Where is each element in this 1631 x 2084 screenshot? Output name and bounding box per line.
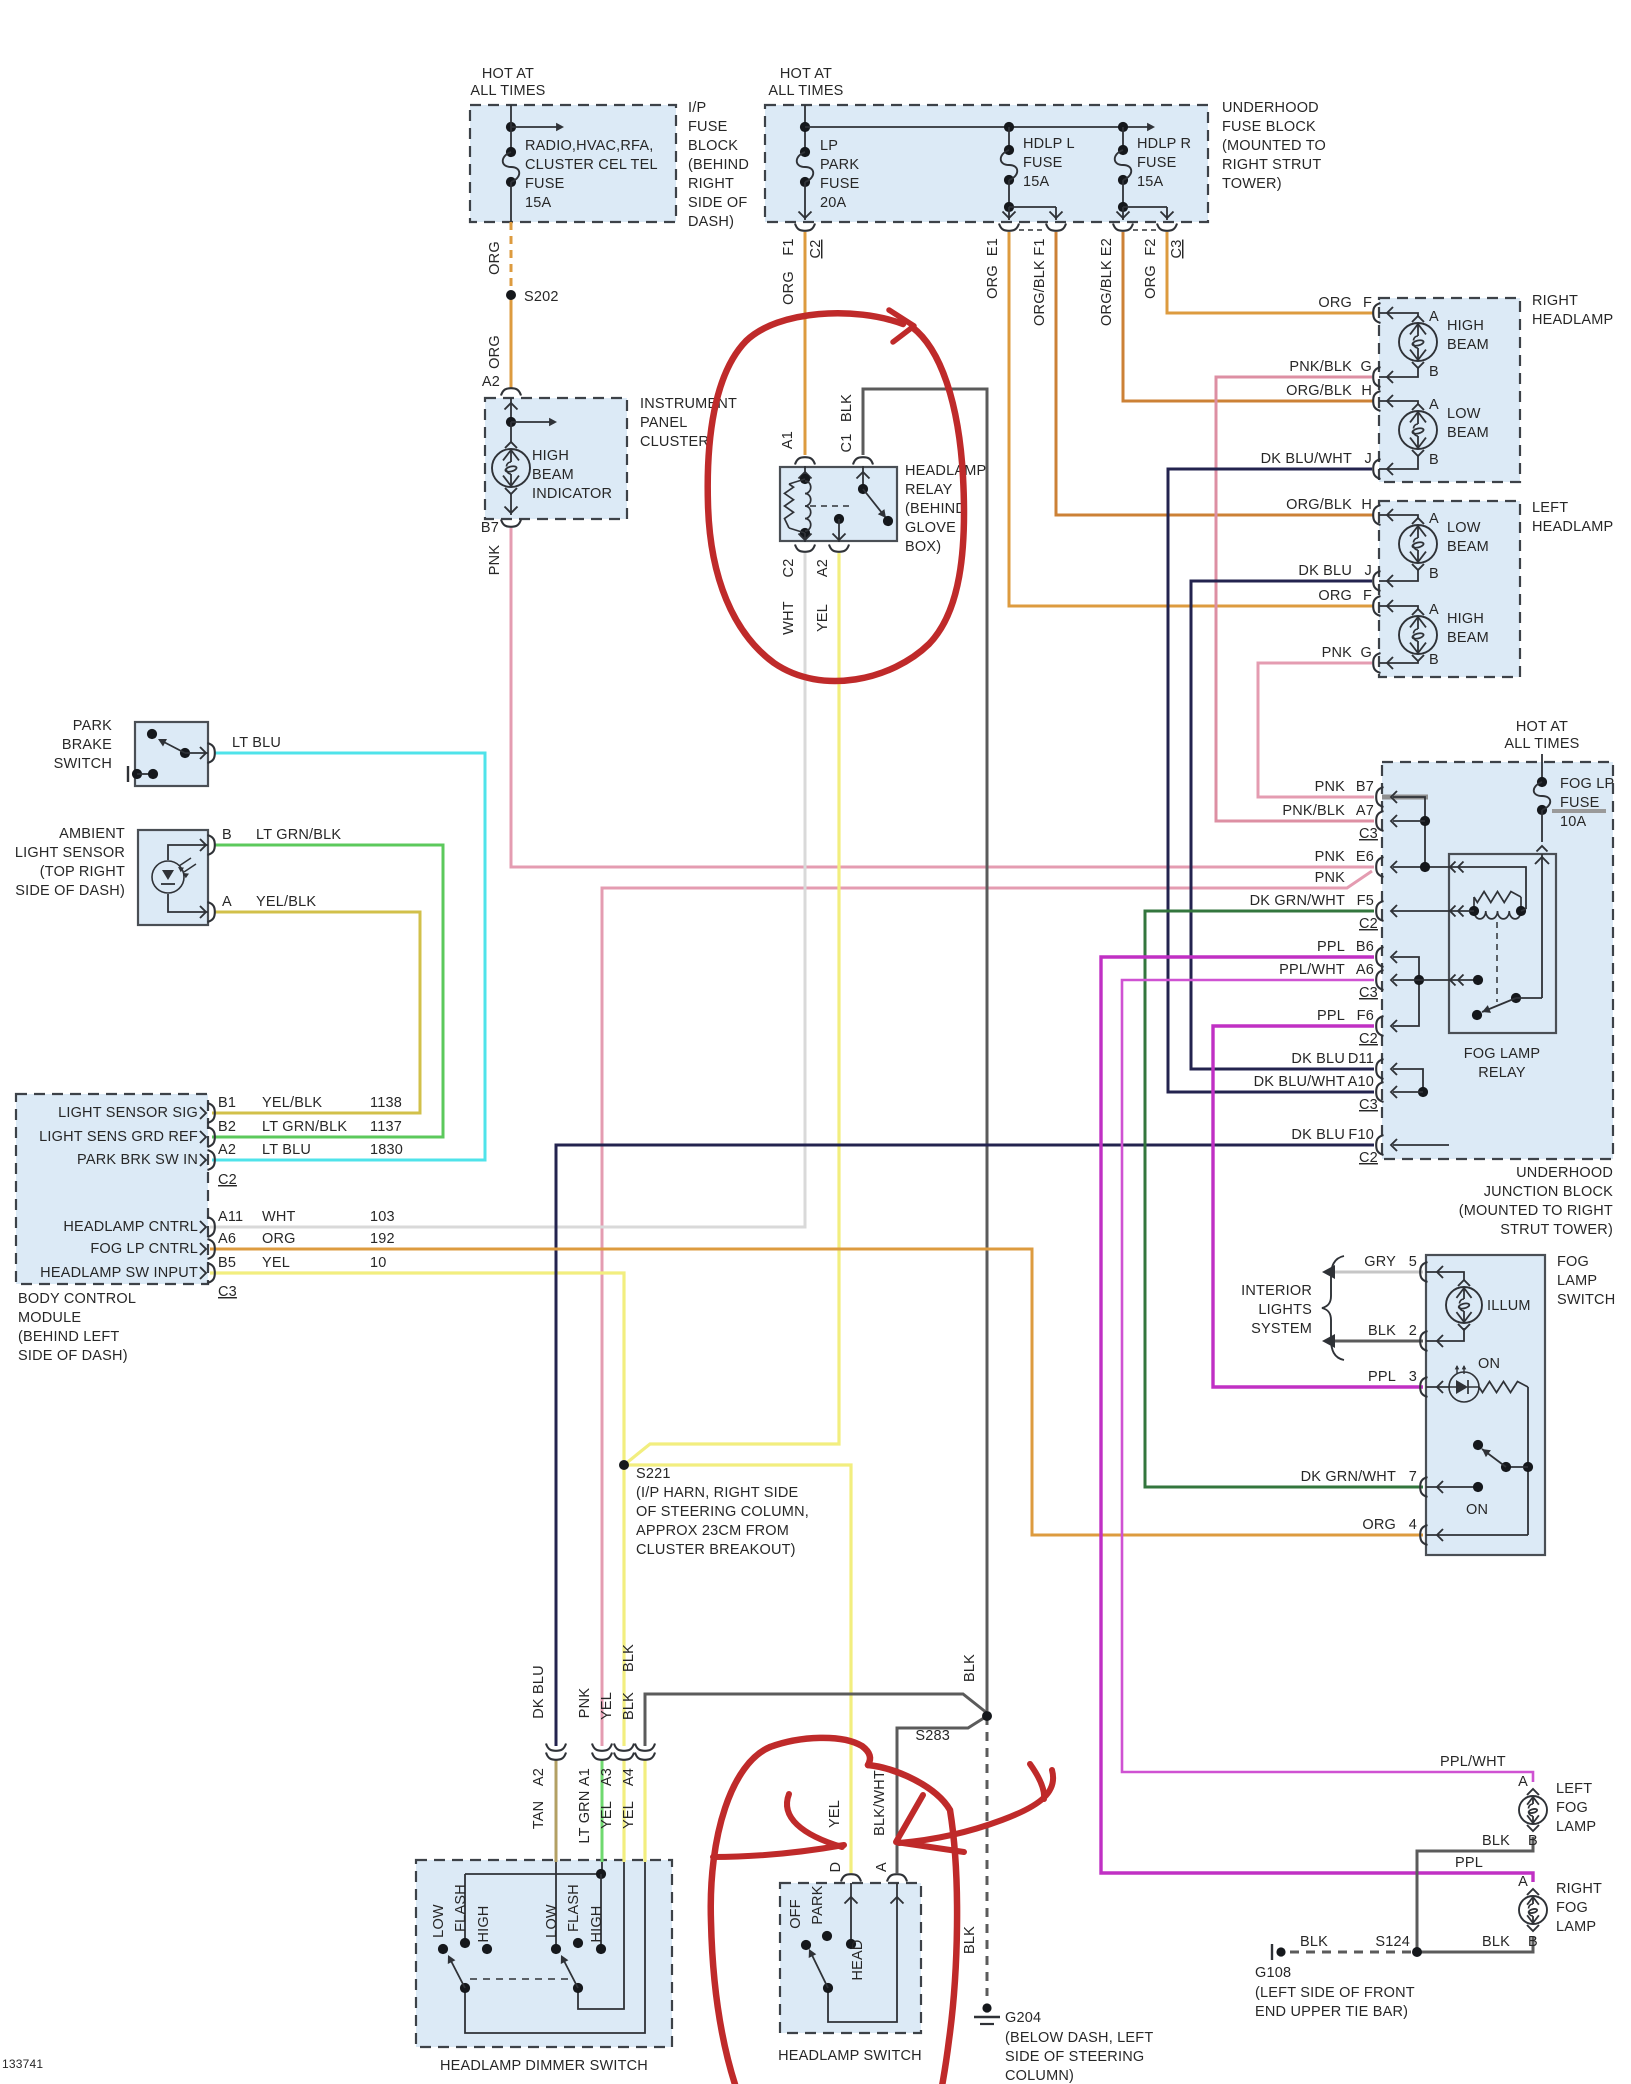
svg-text:LIGHTS: LIGHTS [1258, 1302, 1312, 1318]
svg-text:(MOUNTED TO RIGHT: (MOUNTED TO RIGHT [1459, 1203, 1613, 1219]
svg-text:S124: S124 [1375, 1934, 1410, 1950]
svg-text:INDICATOR: INDICATOR [532, 486, 612, 502]
svg-text:LIGHT SENSOR SIG: LIGHT SENSOR SIG [58, 1105, 198, 1121]
svg-text:F6: F6 [1357, 1008, 1374, 1024]
svg-text:C3: C3 [1169, 240, 1185, 259]
svg-text:133741: 133741 [2, 2057, 43, 2071]
svg-text:FUSE: FUSE [1560, 795, 1600, 811]
svg-text:A2: A2 [531, 1768, 547, 1786]
svg-text:HEADLAMP SWITCH: HEADLAMP SWITCH [778, 2048, 922, 2064]
svg-text:ORG: ORG [1318, 588, 1352, 604]
svg-text:UNDERHOOD: UNDERHOOD [1222, 100, 1319, 116]
svg-text:(MOUNTED TO: (MOUNTED TO [1222, 138, 1326, 154]
svg-text:A: A [1429, 602, 1439, 618]
svg-text:B: B [1528, 1833, 1538, 1849]
svg-text:HEADLAMP: HEADLAMP [905, 463, 986, 479]
svg-text:S283: S283 [915, 1728, 950, 1744]
svg-text:HOT AT: HOT AT [1516, 719, 1568, 735]
svg-text:B2: B2 [218, 1119, 236, 1135]
svg-text:BEAM: BEAM [1447, 337, 1489, 353]
svg-text:B7: B7 [481, 520, 499, 536]
svg-text:LIGHT SENSOR: LIGHT SENSOR [15, 845, 125, 861]
svg-text:BLK: BLK [1482, 1833, 1510, 1849]
svg-text:INSTRUMENT: INSTRUMENT [640, 396, 737, 412]
svg-text:ORG/BLK: ORG/BLK [1032, 260, 1048, 326]
svg-text:ILLUM: ILLUM [1487, 1298, 1531, 1314]
svg-text:B: B [1429, 452, 1439, 468]
svg-text:HIGH: HIGH [532, 448, 569, 464]
svg-text:SIDE OF DASH): SIDE OF DASH) [15, 883, 125, 899]
svg-text:PANEL: PANEL [640, 415, 687, 431]
svg-text:C2: C2 [1359, 1031, 1378, 1047]
svg-text:MODULE: MODULE [18, 1310, 81, 1326]
svg-text:D11: D11 [1348, 1051, 1374, 1067]
svg-text:SIDE OF STEERING: SIDE OF STEERING [1005, 2049, 1144, 2065]
svg-text:LOW: LOW [1447, 520, 1481, 536]
svg-text:FOG LAMP: FOG LAMP [1464, 1046, 1541, 1062]
svg-text:PPL: PPL [1368, 1369, 1396, 1385]
svg-text:FLASH: FLASH [566, 1884, 582, 1932]
svg-text:A: A [1518, 1874, 1528, 1890]
svg-text:G: G [1361, 359, 1372, 375]
svg-text:LOW: LOW [544, 1904, 560, 1938]
svg-text:F2: F2 [1143, 238, 1159, 255]
svg-text:F: F [1363, 588, 1372, 604]
svg-text:LT BLU: LT BLU [232, 735, 281, 751]
svg-text:SWITCH: SWITCH [1557, 1292, 1615, 1308]
svg-text:A: A [222, 894, 232, 910]
svg-text:C2: C2 [218, 1172, 237, 1188]
svg-text:10: 10 [370, 1255, 387, 1271]
svg-text:LAMP: LAMP [1556, 1919, 1596, 1935]
svg-text:BLK: BLK [621, 1692, 637, 1720]
svg-text:PNK: PNK [577, 1688, 593, 1719]
svg-text:4: 4 [1409, 1517, 1417, 1533]
svg-text:STRUT TOWER): STRUT TOWER) [1500, 1222, 1613, 1238]
svg-text:E2: E2 [1099, 238, 1115, 256]
svg-text:1137: 1137 [370, 1119, 402, 1135]
svg-text:G108: G108 [1255, 1965, 1291, 1981]
svg-text:YEL/BLK: YEL/BLK [262, 1095, 322, 1111]
svg-text:F1: F1 [781, 238, 797, 255]
svg-text:1830: 1830 [370, 1142, 403, 1158]
svg-text:PNK: PNK [1315, 849, 1346, 865]
svg-text:PNK: PNK [1315, 870, 1346, 886]
svg-text:A11: A11 [218, 1209, 243, 1225]
svg-text:LT GRN: LT GRN [577, 1790, 593, 1843]
svg-text:(BEHIND: (BEHIND [905, 501, 966, 517]
svg-text:SIDE OF: SIDE OF [688, 195, 747, 211]
svg-text:ORG/BLK: ORG/BLK [1286, 497, 1352, 513]
svg-text:(LEFT SIDE OF FRONT: (LEFT SIDE OF FRONT [1255, 1985, 1415, 2001]
svg-text:FUSE: FUSE [1137, 155, 1177, 171]
svg-text:BLOCK: BLOCK [688, 138, 738, 154]
svg-text:LT GRN/BLK: LT GRN/BLK [262, 1119, 347, 1135]
svg-text:RIGHT: RIGHT [1532, 293, 1578, 309]
svg-text:ALL TIMES: ALL TIMES [470, 83, 545, 99]
svg-text:YEL: YEL [262, 1255, 290, 1271]
svg-text:A3: A3 [599, 1768, 615, 1786]
svg-text:ORG: ORG [487, 335, 503, 369]
svg-text:BRAKE: BRAKE [62, 737, 112, 753]
svg-text:B1: B1 [218, 1095, 236, 1111]
svg-text:LT BLU: LT BLU [262, 1142, 311, 1158]
svg-text:RADIO,HVAC,RFA,: RADIO,HVAC,RFA, [525, 138, 653, 154]
svg-text:HDLP R: HDLP R [1137, 136, 1191, 152]
svg-text:A2: A2 [815, 559, 831, 577]
svg-text:FOG: FOG [1556, 1800, 1588, 1816]
svg-text:ON: ON [1478, 1356, 1500, 1372]
svg-text:A: A [874, 1862, 890, 1872]
svg-text:JUNCTION BLOCK: JUNCTION BLOCK [1484, 1184, 1613, 1200]
svg-text:RIGHT: RIGHT [1556, 1881, 1602, 1897]
svg-text:PNK: PNK [487, 545, 503, 576]
svg-text:A: A [1429, 309, 1439, 325]
svg-text:C3: C3 [1359, 1097, 1378, 1113]
svg-text:B: B [1429, 364, 1439, 380]
svg-text:ORG: ORG [781, 271, 797, 305]
svg-text:2: 2 [1409, 1323, 1417, 1339]
svg-text:S202: S202 [524, 289, 559, 305]
svg-text:HEADLAMP SW INPUT: HEADLAMP SW INPUT [40, 1265, 198, 1281]
svg-text:LAMP: LAMP [1557, 1273, 1597, 1289]
svg-text:3: 3 [1409, 1369, 1417, 1385]
svg-text:FUSE: FUSE [688, 119, 728, 135]
svg-text:B: B [1429, 566, 1439, 582]
svg-text:C2: C2 [808, 240, 824, 259]
svg-text:ORG: ORG [1362, 1517, 1396, 1533]
svg-text:APPROX 23CM FROM: APPROX 23CM FROM [636, 1523, 789, 1539]
svg-text:YEL/BLK: YEL/BLK [256, 894, 316, 910]
svg-text:A1: A1 [577, 1768, 593, 1786]
svg-text:A1: A1 [780, 431, 796, 449]
svg-text:PPL: PPL [1317, 939, 1345, 955]
svg-text:YEL: YEL [815, 604, 831, 632]
svg-text:C3: C3 [1359, 826, 1378, 842]
svg-text:BEAM: BEAM [1447, 630, 1489, 646]
svg-text:AMBIENT: AMBIENT [59, 826, 125, 842]
svg-text:LEFT: LEFT [1556, 1781, 1592, 1797]
svg-text:LP: LP [820, 138, 838, 154]
svg-text:A: A [1429, 397, 1439, 413]
svg-text:BLK: BLK [962, 1654, 978, 1682]
svg-text:PPL: PPL [1317, 1008, 1345, 1024]
svg-text:FOG: FOG [1556, 1900, 1588, 1916]
svg-text:RIGHT: RIGHT [688, 176, 734, 192]
svg-text:END UPPER TIE BAR): END UPPER TIE BAR) [1255, 2004, 1408, 2020]
svg-text:CLUSTER CEL TEL: CLUSTER CEL TEL [525, 157, 658, 173]
svg-text:CLUSTER: CLUSTER [640, 434, 709, 450]
svg-text:7: 7 [1409, 1469, 1417, 1485]
svg-text:SWITCH: SWITCH [54, 756, 112, 772]
svg-text:HIGH: HIGH [1447, 611, 1484, 627]
svg-text:H: H [1361, 497, 1372, 513]
svg-text:F1: F1 [1032, 238, 1048, 255]
svg-text:PNK/BLK: PNK/BLK [1282, 803, 1345, 819]
svg-text:YEL: YEL [599, 1692, 615, 1720]
svg-text:LOW: LOW [1447, 406, 1481, 422]
svg-text:WHT: WHT [781, 601, 797, 635]
svg-text:OFF: OFF [788, 1899, 804, 1929]
svg-text:PARK: PARK [73, 718, 112, 734]
svg-text:BOX): BOX) [905, 539, 941, 555]
svg-text:HEAD: HEAD [850, 1939, 866, 1980]
svg-text:G204: G204 [1005, 2010, 1041, 2026]
svg-text:COLUMN): COLUMN) [1005, 2068, 1074, 2084]
svg-text:HIGH: HIGH [1447, 318, 1484, 334]
svg-text:ORG/BLK: ORG/BLK [1099, 260, 1115, 326]
svg-text:FOG LP: FOG LP [1560, 776, 1614, 792]
svg-text:PPL: PPL [1455, 1855, 1483, 1871]
svg-text:RELAY: RELAY [905, 482, 953, 498]
svg-text:ORG/BLK: ORG/BLK [1286, 383, 1352, 399]
svg-text:C2: C2 [781, 559, 797, 578]
svg-text:HEADLAMP: HEADLAMP [1532, 312, 1613, 328]
svg-text:FLASH: FLASH [453, 1884, 469, 1932]
svg-text:HEADLAMP: HEADLAMP [1532, 519, 1613, 535]
svg-text:G: G [1361, 645, 1372, 661]
svg-text:B: B [1429, 652, 1439, 668]
svg-text:E1: E1 [985, 238, 1001, 256]
svg-text:BLK: BLK [839, 394, 855, 422]
svg-text:5: 5 [1409, 1254, 1417, 1270]
svg-text:BLK: BLK [962, 1926, 978, 1954]
svg-text:15A: 15A [525, 195, 552, 211]
svg-text:ORG: ORG [1318, 295, 1352, 311]
svg-text:20A: 20A [820, 195, 847, 211]
svg-text:A4: A4 [621, 1768, 637, 1786]
svg-text:PNK: PNK [1315, 779, 1346, 795]
svg-text:1138: 1138 [370, 1095, 402, 1111]
svg-text:INTERIOR: INTERIOR [1241, 1283, 1312, 1299]
svg-text:J: J [1365, 563, 1372, 579]
svg-text:SYSTEM: SYSTEM [1251, 1321, 1312, 1337]
svg-text:BLK: BLK [1482, 1934, 1510, 1950]
svg-text:B: B [1528, 1934, 1538, 1950]
svg-text:HEADLAMP CNTRL: HEADLAMP CNTRL [63, 1219, 198, 1235]
svg-text:TAN: TAN [531, 1801, 547, 1830]
svg-text:PARK: PARK [820, 157, 859, 173]
svg-text:A10: A10 [1348, 1074, 1374, 1090]
svg-text:YEL: YEL [599, 1801, 615, 1829]
svg-text:GLOVE: GLOVE [905, 520, 956, 536]
svg-text:192: 192 [370, 1231, 395, 1247]
svg-text:UNDERHOOD: UNDERHOOD [1516, 1165, 1613, 1181]
svg-text:BLK: BLK [1300, 1934, 1328, 1950]
svg-text:DASH): DASH) [688, 214, 734, 230]
svg-text:15A: 15A [1023, 174, 1050, 190]
svg-text:(BEHIND: (BEHIND [688, 157, 749, 173]
svg-text:BEAM: BEAM [1447, 539, 1489, 555]
svg-text:LIGHT SENS GRD REF: LIGHT SENS GRD REF [39, 1129, 198, 1145]
svg-text:S221: S221 [636, 1466, 671, 1482]
svg-text:DK BLU: DK BLU [531, 1665, 547, 1719]
svg-text:ORG: ORG [1143, 265, 1159, 299]
svg-text:ON: ON [1466, 1502, 1488, 1518]
svg-text:FUSE: FUSE [525, 176, 565, 192]
svg-text:DK BLU: DK BLU [1291, 1051, 1345, 1067]
svg-text:HEADLAMP DIMMER SWITCH: HEADLAMP DIMMER SWITCH [440, 2058, 648, 2074]
svg-text:HIGH: HIGH [476, 1905, 492, 1942]
svg-text:HIGH: HIGH [589, 1905, 605, 1942]
svg-text:E6: E6 [1356, 849, 1374, 865]
svg-text:TOWER): TOWER) [1222, 176, 1282, 192]
svg-text:F10: F10 [1348, 1127, 1374, 1143]
svg-text:C2: C2 [1359, 916, 1378, 932]
svg-text:WHT: WHT [262, 1209, 296, 1225]
svg-text:SIDE OF DASH): SIDE OF DASH) [18, 1348, 128, 1364]
svg-text:FUSE: FUSE [1023, 155, 1063, 171]
svg-text:I/P: I/P [688, 100, 706, 116]
svg-text:C3: C3 [218, 1284, 237, 1300]
svg-text:LT GRN/BLK: LT GRN/BLK [256, 827, 341, 843]
svg-text:B6: B6 [1356, 939, 1374, 955]
svg-text:HDLP L: HDLP L [1023, 136, 1075, 152]
svg-text:(BEHIND LEFT: (BEHIND LEFT [18, 1329, 120, 1345]
svg-text:B5: B5 [218, 1255, 236, 1271]
svg-text:RELAY: RELAY [1478, 1065, 1526, 1081]
svg-text:10A: 10A [1560, 814, 1587, 830]
svg-text:GRY: GRY [1364, 1254, 1396, 1270]
svg-text:DK GRN/WHT: DK GRN/WHT [1250, 893, 1345, 909]
svg-text:A: A [1518, 1774, 1528, 1790]
svg-text:ALL TIMES: ALL TIMES [1504, 736, 1579, 752]
svg-text:H: H [1361, 383, 1372, 399]
svg-text:OF STEERING COLUMN,: OF STEERING COLUMN, [636, 1504, 809, 1520]
svg-text:CLUSTER BREAKOUT): CLUSTER BREAKOUT) [636, 1542, 796, 1558]
svg-text:LAMP: LAMP [1556, 1819, 1596, 1835]
svg-text:(TOP RIGHT: (TOP RIGHT [40, 864, 125, 880]
svg-text:RIGHT STRUT: RIGHT STRUT [1222, 157, 1321, 173]
svg-text:DK BLU: DK BLU [1298, 563, 1352, 579]
svg-text:ALL TIMES: ALL TIMES [768, 83, 843, 99]
svg-text:(BELOW DASH, LEFT: (BELOW DASH, LEFT [1005, 2030, 1153, 2046]
svg-text:PNK/BLK: PNK/BLK [1289, 359, 1352, 375]
svg-text:LEFT: LEFT [1532, 500, 1568, 516]
svg-text:B: B [222, 827, 232, 843]
svg-text:C2: C2 [1359, 1150, 1378, 1166]
svg-text:BODY CONTROL: BODY CONTROL [18, 1291, 136, 1307]
svg-text:C3: C3 [1359, 985, 1378, 1001]
svg-text:A6: A6 [1356, 962, 1374, 978]
svg-text:D: D [828, 1862, 844, 1873]
svg-text:HOT AT: HOT AT [482, 66, 534, 82]
svg-text:FOG LP CNTRL: FOG LP CNTRL [90, 1241, 198, 1257]
svg-text:A6: A6 [218, 1231, 236, 1247]
svg-text:A2: A2 [482, 374, 500, 390]
svg-text:FUSE: FUSE [820, 176, 860, 192]
svg-text:PPL/WHT: PPL/WHT [1279, 962, 1345, 978]
svg-text:C1: C1 [839, 434, 855, 453]
svg-text:YEL: YEL [621, 1801, 637, 1829]
svg-text:103: 103 [370, 1209, 395, 1225]
svg-text:DK GRN/WHT: DK GRN/WHT [1301, 1469, 1396, 1485]
svg-text:YEL: YEL [827, 1800, 843, 1828]
svg-text:ORG: ORG [985, 265, 1001, 299]
svg-text:ORG: ORG [487, 241, 503, 275]
svg-text:15A: 15A [1137, 174, 1164, 190]
svg-text:PARK BRK SW IN: PARK BRK SW IN [77, 1152, 198, 1168]
svg-text:A7: A7 [1356, 803, 1374, 819]
svg-text:BLK: BLK [1368, 1323, 1396, 1339]
svg-text:J: J [1365, 451, 1372, 467]
svg-text:FUSE BLOCK: FUSE BLOCK [1222, 119, 1316, 135]
svg-text:ORG: ORG [262, 1231, 296, 1247]
svg-text:DK BLU: DK BLU [1291, 1127, 1345, 1143]
svg-text:LOW: LOW [431, 1904, 447, 1938]
svg-text:F5: F5 [1357, 893, 1374, 909]
svg-text:F: F [1363, 295, 1372, 311]
svg-text:BLK: BLK [621, 1644, 637, 1672]
svg-text:PNK: PNK [1322, 645, 1353, 661]
svg-text:PARK: PARK [810, 1885, 826, 1924]
svg-text:BLK/WHT: BLK/WHT [872, 1770, 888, 1836]
svg-text:BEAM: BEAM [1447, 425, 1489, 441]
svg-text:PPL/WHT: PPL/WHT [1440, 1754, 1506, 1770]
svg-text:B7: B7 [1356, 779, 1374, 795]
svg-text:FOG: FOG [1557, 1254, 1589, 1270]
svg-text:A2: A2 [218, 1142, 236, 1158]
svg-text:DK BLU/WHT: DK BLU/WHT [1261, 451, 1352, 467]
svg-text:A: A [1429, 511, 1439, 527]
svg-text:(I/P HARN, RIGHT SIDE: (I/P HARN, RIGHT SIDE [636, 1485, 799, 1501]
svg-text:DK BLU/WHT: DK BLU/WHT [1254, 1074, 1345, 1090]
svg-text:HOT AT: HOT AT [780, 66, 832, 82]
svg-text:BEAM: BEAM [532, 467, 574, 483]
